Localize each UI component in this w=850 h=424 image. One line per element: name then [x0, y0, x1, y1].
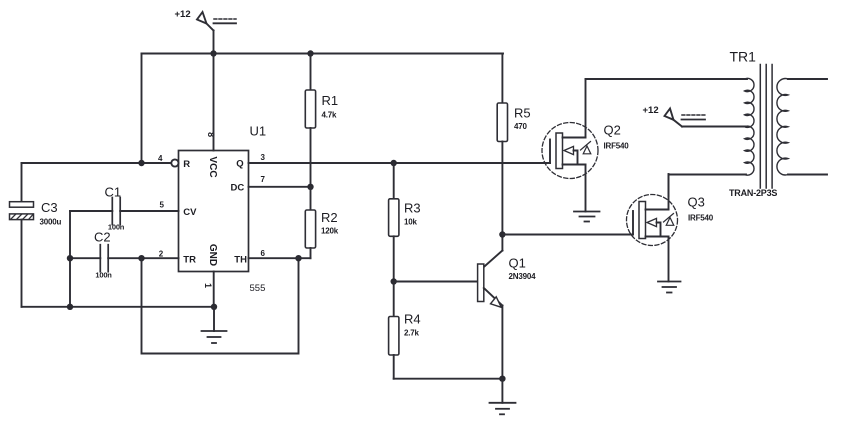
node junction R5/Q1 collector/Q3 gate	[499, 231, 505, 237]
wire TR-TH loop	[142, 258, 299, 353]
node junction C2 left	[67, 255, 73, 261]
svg-text:R5: R5	[514, 106, 531, 121]
ground under Q3	[658, 282, 681, 293]
svg-text:GND: GND	[207, 244, 218, 266]
svg-text:R: R	[183, 159, 190, 170]
svg-text:1: 1	[203, 283, 213, 288]
wire Q2 drain to transformer top	[586, 78, 748, 80]
wire secondary top	[788, 78, 827, 80]
svg-text:4.7k: 4.7k	[322, 111, 338, 120]
power +12 supply symbol at transformer	[643, 105, 706, 127]
wire center tap	[682, 126, 746, 128]
svg-text:5: 5	[160, 201, 165, 210]
transformer TR1 core	[759, 65, 761, 189]
svg-text:C1: C1	[105, 185, 122, 200]
ground under 555	[202, 307, 227, 343]
resistor R5	[497, 54, 530, 251]
svg-text:R4: R4	[404, 312, 421, 327]
transistor Q2 IRF540	[542, 79, 629, 212]
svg-text:DC: DC	[231, 183, 245, 194]
node junction rail/R1	[307, 50, 313, 56]
svg-text:100n: 100n	[95, 271, 112, 280]
transformer TR1 secondary winding	[777, 79, 788, 175]
pin 4 R bubble	[171, 159, 178, 166]
svg-text:+12: +12	[643, 105, 659, 116]
svg-text:R2: R2	[321, 210, 338, 225]
svg-text:4: 4	[158, 154, 163, 163]
capacitor C2	[70, 230, 179, 280]
svg-text:3: 3	[261, 153, 266, 162]
svg-text:R1: R1	[322, 93, 339, 108]
svg-text:555: 555	[250, 283, 266, 294]
svg-text:Q: Q	[236, 158, 243, 169]
svg-text:120k: 120k	[321, 227, 339, 236]
power +12 supply symbol top	[175, 9, 237, 54]
node junction TH drop	[295, 255, 301, 261]
node junction rail/+12	[210, 50, 216, 56]
svg-text:R3: R3	[404, 201, 421, 216]
svg-text:IRF540: IRF540	[688, 214, 714, 223]
wire VCC pin to rail	[213, 54, 215, 151]
svg-text:10k: 10k	[404, 218, 417, 227]
wire TH pin 6 line	[249, 257, 311, 259]
ground under Q2	[574, 212, 600, 222]
node junction R3/R4/base	[391, 278, 397, 284]
svg-text:Q2: Q2	[604, 123, 621, 138]
node junction reset line	[138, 160, 144, 166]
svg-text:VCC: VCC	[207, 156, 218, 177]
wire +12 top rail	[142, 53, 504, 55]
svg-text:C2: C2	[94, 230, 111, 245]
svg-text:IRF540: IRF540	[604, 142, 630, 151]
wire rail left drop to reset line	[141, 54, 143, 164]
node junction emitter/ground	[499, 376, 505, 382]
resistor R4	[389, 282, 421, 379]
wire ground bus under 555	[22, 306, 215, 308]
node junction gnd bus pin1	[211, 304, 217, 310]
node junction DC/R1/R2	[307, 184, 313, 190]
svg-text:TH: TH	[234, 254, 247, 265]
node junction Q/R3	[391, 160, 397, 166]
wire pin1 down	[213, 272, 215, 307]
wire primary bottom to Q3 drain	[669, 175, 747, 197]
transistor Q3 IRF540	[627, 174, 714, 282]
node junction C2 right TR	[138, 255, 144, 261]
transistor Q1 2N3904	[478, 251, 536, 379]
wire DC pin 7 line	[249, 186, 311, 188]
capacitor C3	[10, 163, 62, 307]
wire Q1 base	[394, 281, 478, 283]
svg-text:CV: CV	[183, 207, 197, 218]
svg-text:+12: +12	[175, 9, 191, 20]
wire Q output line	[249, 162, 551, 164]
wire R4 to emitter ground	[394, 378, 503, 380]
svg-text:3000u: 3000u	[40, 218, 62, 227]
resistor R3	[389, 163, 421, 282]
resistor R1	[305, 54, 338, 187]
wire secondary bottom	[788, 174, 827, 176]
resistor R2	[305, 187, 338, 258]
wire reset line to pin 4	[22, 162, 172, 164]
wire Q3 gate line	[502, 234, 633, 236]
ground under Q1	[490, 379, 516, 415]
svg-text:Q1: Q1	[509, 256, 526, 271]
svg-text:2.7k: 2.7k	[404, 329, 420, 338]
svg-text:C3: C3	[41, 200, 58, 215]
svg-text:7: 7	[261, 175, 266, 184]
svg-text:TR1: TR1	[730, 49, 757, 65]
wire left vertical C1/C2	[69, 211, 71, 307]
transformer TR1 primary winding	[745, 78, 754, 175]
svg-text:TRAN-2P3S: TRAN-2P3S	[729, 188, 777, 198]
svg-text:6: 6	[261, 249, 266, 258]
capacitor C1	[70, 185, 179, 232]
node junction gnd bus left	[67, 304, 73, 310]
svg-text:2N3904: 2N3904	[509, 272, 537, 281]
svg-text:470: 470	[514, 122, 527, 131]
svg-text:TR: TR	[183, 254, 196, 265]
svg-text:U1: U1	[250, 124, 267, 139]
op-amp U1 555 timer body	[179, 151, 249, 272]
svg-text:Q3: Q3	[688, 195, 705, 210]
